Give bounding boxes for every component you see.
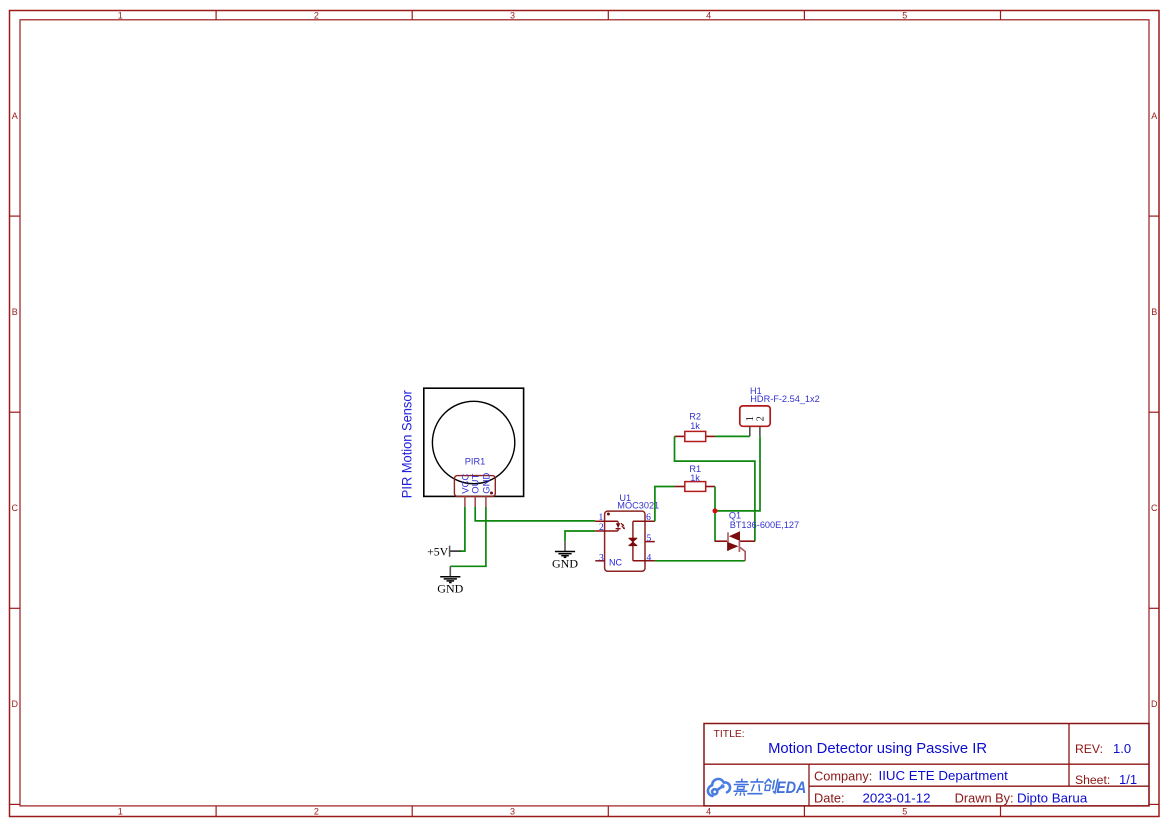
svg-text:Dipto Barua: Dipto Barua [1017,790,1088,805]
svg-text:C: C [1151,503,1158,513]
svg-text:5: 5 [902,10,907,20]
wire VCC to +5V [460,507,465,551]
svg-text:2: 2 [756,416,767,421]
Sheet field [1075,772,1137,787]
wire OUT to U1 pin 1 [475,507,595,521]
wire R2 left to Q1 MT2 [675,436,755,541]
U1 pin 2 [595,523,618,533]
svg-text:TITLE:: TITLE: [714,729,745,740]
svg-text:Company:: Company: [814,768,872,783]
svg-text:MOC3021: MOC3021 [617,500,659,510]
svg-text:Sheet:: Sheet: [1075,773,1110,787]
svg-text:OUT: OUT [471,474,482,494]
ground GND2 [552,541,578,570]
svg-text:D: D [11,699,18,709]
wire U1 pin 6 to R1 [655,487,675,522]
Date field [814,790,931,805]
power flag +5V [427,545,460,559]
svg-text:A: A [12,111,18,121]
wire R1 to Q1 terminal [714,487,716,542]
svg-text:2: 2 [599,523,604,533]
svg-text:Q1: Q1 [729,511,741,521]
H1 designator labels [750,386,820,404]
resistor R1 [675,482,716,492]
REV field [1075,741,1131,756]
svg-text:6: 6 [646,513,651,523]
svg-text:4: 4 [706,807,711,817]
U1 pin 3 NC label [609,558,622,568]
svg-text:C: C [11,503,18,513]
wire PIR GND to ground GND1 [450,507,486,566]
svg-text:B: B [12,307,18,317]
svg-text:EDA: EDA [776,778,806,797]
svg-text:Drawn By:: Drawn By: [955,790,1014,805]
R2 value labels [689,411,701,431]
svg-text:GND: GND [552,557,578,571]
sensor PIR1 body [424,388,524,496]
svg-text:1: 1 [599,513,604,523]
sensor PIR1 designator [465,456,485,466]
svg-text:2: 2 [314,807,319,817]
svg-text:+5V: +5V [427,545,449,559]
Q1 designator labels [729,511,799,531]
title block frame [704,724,1149,806]
svg-text:1.0: 1.0 [1113,741,1131,756]
pin GND of PIR1 [481,473,492,507]
svg-text:IIUC ETE Department: IIUC ETE Department [879,768,1009,783]
U1 pin 5 [645,534,655,544]
optocoupler U1 box [605,511,645,571]
svg-text:4: 4 [647,553,652,563]
triac Q1 [715,531,755,561]
svg-text:REV:: REV: [1075,742,1103,756]
pin VCC of PIR1 [460,474,471,507]
header H1 [740,406,770,436]
svg-text:PIR Motion Sensor: PIR Motion Sensor [399,390,415,498]
resistor R2 [675,431,716,441]
U1 internal LED [616,521,626,531]
title block TITLE label [714,729,745,740]
svg-text:5: 5 [647,534,652,544]
svg-text:Date:: Date: [814,790,845,805]
svg-text:1k: 1k [690,421,700,431]
wire R2 to H1 pin 1 [715,435,750,437]
svg-text:1: 1 [118,807,123,817]
Drawn By field [955,790,1088,805]
svg-text:1k: 1k [690,473,700,483]
ground GND1 [437,566,463,595]
svg-text:B: B [1151,307,1157,317]
Company field [814,768,1008,783]
svg-text:PIR1: PIR1 [465,456,485,466]
svg-text:D: D [1151,699,1158,709]
U1 pin 6 [633,513,655,523]
svg-text:5: 5 [902,807,907,817]
U1 pin 1 [595,513,618,523]
junction dot [713,508,718,513]
wire junction to H1 pin 2 [715,436,760,511]
svg-text:Motion Detector using Passive: Motion Detector using Passive IR [768,741,987,757]
U1 internal triac side vertical [632,521,634,561]
svg-text:1/1: 1/1 [1119,772,1137,787]
sensor PIR1 pin box [454,476,495,497]
svg-text:4: 4 [706,10,711,20]
R1 value labels [689,464,701,483]
U1 pin 3 [595,553,604,563]
svg-text:1: 1 [118,10,123,20]
U1 pin 4 [633,553,655,563]
svg-text:HDR-F-2.54_1x2: HDR-F-2.54_1x2 [750,394,819,404]
svg-text:NC: NC [609,558,622,568]
svg-text:GND: GND [481,473,492,494]
logo JLCEDA text [733,779,778,795]
svg-text:R2: R2 [689,411,701,421]
logo JLCEDA cloud [708,779,730,796]
svg-text:3: 3 [510,10,515,20]
label PIR Motion Sensor [399,390,415,498]
svg-text:2023-01-12: 2023-01-12 [863,790,931,805]
svg-text:BT136-600E,127: BT136-600E,127 [730,520,799,530]
U1 internal triac [629,538,638,545]
svg-text:GND: GND [437,582,463,596]
wire U1 pin 4 to Q1 gate [655,560,745,562]
svg-text:2: 2 [314,10,319,20]
pin OUT of PIR1 [471,474,482,507]
logo EDA text [776,778,806,797]
U1 designator MOC3021 [617,493,659,510]
svg-text:3: 3 [599,553,604,563]
wire U1 pin 2 to ground GND2 [565,531,595,541]
sheet title text [768,741,987,757]
svg-text:A: A [1151,111,1157,121]
svg-text:3: 3 [510,807,515,817]
